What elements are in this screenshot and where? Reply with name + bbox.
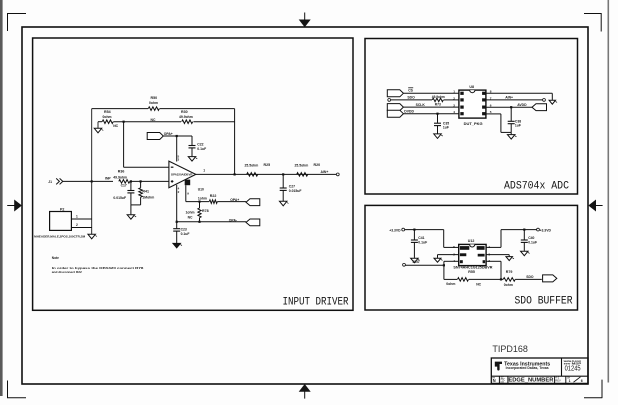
- svg-text:INP: INP: [105, 176, 111, 180]
- svg-text:SN74AHC1G125DBVR: SN74AHC1G125DBVR: [453, 266, 493, 270]
- svg-text:U10: U10: [198, 188, 204, 192]
- svg-text:P2: P2: [60, 207, 64, 211]
- svg-text:C38: C38: [515, 119, 521, 123]
- svg-text:NC: NC: [188, 216, 193, 220]
- svg-text:R55: R55: [468, 270, 475, 274]
- svg-text:INPUT DRIVER: INPUT DRIVER: [283, 296, 349, 308]
- svg-text:0.1uF: 0.1uF: [528, 241, 537, 245]
- svg-text:25.5ohm: 25.5ohm: [245, 164, 259, 168]
- svg-text:R22: R22: [210, 194, 217, 198]
- svg-text:1: 1: [203, 168, 205, 172]
- svg-text:R78: R78: [202, 209, 209, 213]
- svg-text:2: 2: [453, 96, 455, 100]
- svg-text:OPA+: OPA+: [230, 198, 239, 202]
- svg-text:AIN+: AIN+: [505, 95, 513, 99]
- svg-text:NC: NC: [113, 124, 118, 128]
- svg-text:J1: J1: [48, 180, 52, 184]
- svg-text:Note: Note: [52, 256, 59, 260]
- svg-text:3: 3: [488, 252, 490, 256]
- svg-text:1uF: 1uF: [515, 124, 521, 128]
- svg-text:R50: R50: [151, 96, 158, 100]
- svg-text:+3.3VD: +3.3VD: [540, 228, 552, 232]
- svg-text:Incorporated Dallas, Texas: Incorporated Dallas, Texas: [506, 366, 549, 370]
- svg-text:OPA+: OPA+: [164, 132, 173, 136]
- svg-text:OPA-: OPA-: [229, 219, 237, 223]
- svg-text:R30: R30: [181, 110, 188, 114]
- svg-text:N: N: [493, 378, 496, 383]
- svg-text:C35: C35: [443, 121, 449, 125]
- svg-text:1: 1: [569, 379, 571, 383]
- svg-text:R20: R20: [314, 163, 321, 167]
- svg-text:+3.3VD: +3.3VD: [389, 228, 401, 232]
- svg-text:2: 2: [76, 223, 78, 227]
- svg-text:1: 1: [76, 214, 78, 218]
- svg-text:OPA320AIDBVR: OPA320AIDBVR: [171, 173, 193, 177]
- svg-text:R41: R41: [142, 190, 149, 194]
- svg-text:EDGE_NUMBER: EDGE_NUMBER: [508, 377, 554, 383]
- svg-text:4: 4: [453, 110, 455, 114]
- svg-text:1: 1: [453, 90, 455, 94]
- svg-text:4: 4: [453, 259, 455, 263]
- svg-text:TIPD168: TIPD168: [492, 344, 528, 355]
- svg-text:SDO: SDO: [412, 260, 419, 264]
- svg-text:C40: C40: [528, 236, 534, 240]
- svg-text:0ohm: 0ohm: [446, 282, 455, 286]
- svg-text:NC: NC: [151, 118, 156, 122]
- svg-text:25.5ohm: 25.5ohm: [295, 164, 309, 168]
- svg-text:C17: C17: [121, 183, 127, 187]
- svg-text:2: 2: [488, 259, 490, 263]
- svg-text:NO: NO: [501, 382, 505, 384]
- svg-text:0.1uF: 0.1uF: [197, 147, 206, 151]
- svg-text:5: 5: [453, 245, 455, 249]
- svg-text:1ohm: 1ohm: [198, 196, 207, 200]
- svg-text:0.015uF: 0.015uF: [113, 196, 126, 200]
- svg-text:and disconnect R22: and disconnect R22: [52, 270, 82, 274]
- svg-text:R36: R36: [118, 170, 125, 174]
- svg-text:0.015uF: 0.015uF: [289, 189, 302, 193]
- svg-text:DVDD: DVDD: [404, 110, 414, 114]
- svg-text:0.1uF: 0.1uF: [181, 232, 190, 236]
- svg-text:SDO BUFFER: SDO BUFFER: [515, 295, 573, 307]
- svg-text:DUT_PKG: DUT_PKG: [464, 122, 484, 126]
- svg-text:49.9ohm: 49.9ohm: [113, 175, 127, 179]
- svg-text:REV: REV: [555, 379, 561, 383]
- svg-text:1: 1: [488, 245, 490, 249]
- svg-text:ADS704x ADC: ADS704x ADC: [504, 181, 569, 193]
- svg-text:MHEADER,MALE,2POS,100CTR,SM: MHEADER,MALE,2POS,100CTR,SM: [34, 234, 86, 238]
- svg-text:SCLK: SCLK: [416, 103, 426, 107]
- svg-text:49.9ohm: 49.9ohm: [179, 115, 193, 119]
- svg-text:0.1uF: 0.1uF: [418, 241, 427, 245]
- svg-text:AIN+: AIN+: [321, 170, 329, 174]
- svg-text:1Mohm: 1Mohm: [142, 195, 154, 199]
- svg-text:R54: R54: [104, 110, 111, 114]
- svg-text:0ohm: 0ohm: [504, 283, 513, 287]
- svg-text:01245: 01245: [565, 365, 581, 372]
- svg-text:6: 6: [581, 379, 583, 383]
- svg-text:0ohm: 0ohm: [103, 115, 112, 119]
- svg-text:1ohm: 1ohm: [186, 211, 195, 215]
- svg-text:C23: C23: [181, 228, 187, 232]
- svg-text:CS: CS: [408, 88, 413, 92]
- svg-text:U8: U8: [469, 85, 474, 89]
- svg-text:R73: R73: [435, 102, 441, 106]
- svg-text:R25: R25: [264, 163, 271, 167]
- svg-text:3: 3: [453, 104, 455, 108]
- svg-text:NC: NC: [476, 282, 481, 286]
- svg-text:U12: U12: [468, 239, 475, 243]
- svg-text:SDO: SDO: [407, 95, 415, 99]
- svg-text:0ohm: 0ohm: [149, 101, 158, 105]
- svg-text:1uF: 1uF: [443, 126, 449, 130]
- svg-text:C41: C41: [418, 236, 424, 240]
- svg-text:AVDD: AVDD: [517, 103, 527, 107]
- svg-text:49.9ohm: 49.9ohm: [432, 95, 445, 99]
- svg-text:2: 2: [453, 252, 455, 256]
- svg-text:R79: R79: [506, 270, 513, 274]
- svg-text:SDO: SDO: [526, 275, 534, 279]
- svg-text:C27: C27: [289, 184, 295, 188]
